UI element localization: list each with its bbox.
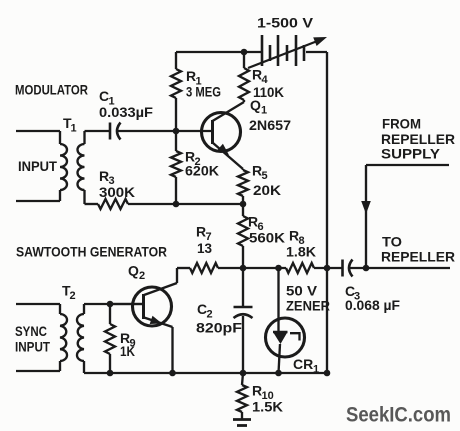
svg-text:300K: 300K [99,184,135,200]
svg-text:REPELLER: REPELLER [381,131,455,147]
svg-text:REPELLER: REPELLER [381,249,455,265]
svg-text:1-500 V: 1-500 V [257,15,314,31]
svg-text:SYNC: SYNC [15,323,47,339]
svg-text:1: 1 [261,105,267,117]
svg-text:2N657: 2N657 [249,117,291,133]
svg-text:1.5K: 1.5K [252,399,283,415]
svg-text:20K: 20K [253,182,281,198]
svg-text:50 V: 50 V [286,283,318,299]
svg-text:CR: CR [293,356,313,372]
svg-text:1: 1 [71,123,77,135]
svg-text:1.8K: 1.8K [286,244,316,260]
svg-text:2: 2 [70,290,76,302]
svg-text:3 MEG: 3 MEG [186,84,221,100]
svg-text:SeekIC.com: SeekIC.com [346,404,451,427]
svg-text:2: 2 [139,270,145,282]
svg-text:820pF: 820pF [196,320,243,336]
svg-text:ZENER: ZENER [286,298,330,314]
svg-text:Q: Q [250,97,261,113]
svg-text:1K: 1K [120,343,135,359]
svg-text:Q: Q [128,263,139,279]
svg-text:560K: 560K [249,230,285,246]
svg-text:TO: TO [382,234,402,250]
svg-text:SUPPLY: SUPPLY [381,146,441,162]
svg-text:1: 1 [313,364,319,376]
svg-text:5: 5 [262,170,268,182]
svg-text:620K: 620K [185,163,219,179]
svg-text:INPUT: INPUT [18,158,57,174]
svg-text:FROM: FROM [382,116,421,132]
svg-text:MODULATOR: MODULATOR [15,81,88,97]
svg-text:0.033µF: 0.033µF [99,104,153,120]
svg-text:SAWTOOTH GENERATOR: SAWTOOTH GENERATOR [16,244,167,260]
svg-text:INPUT: INPUT [15,339,50,355]
svg-text:13: 13 [197,240,212,256]
svg-text:0.068 µF: 0.068 µF [345,297,400,313]
